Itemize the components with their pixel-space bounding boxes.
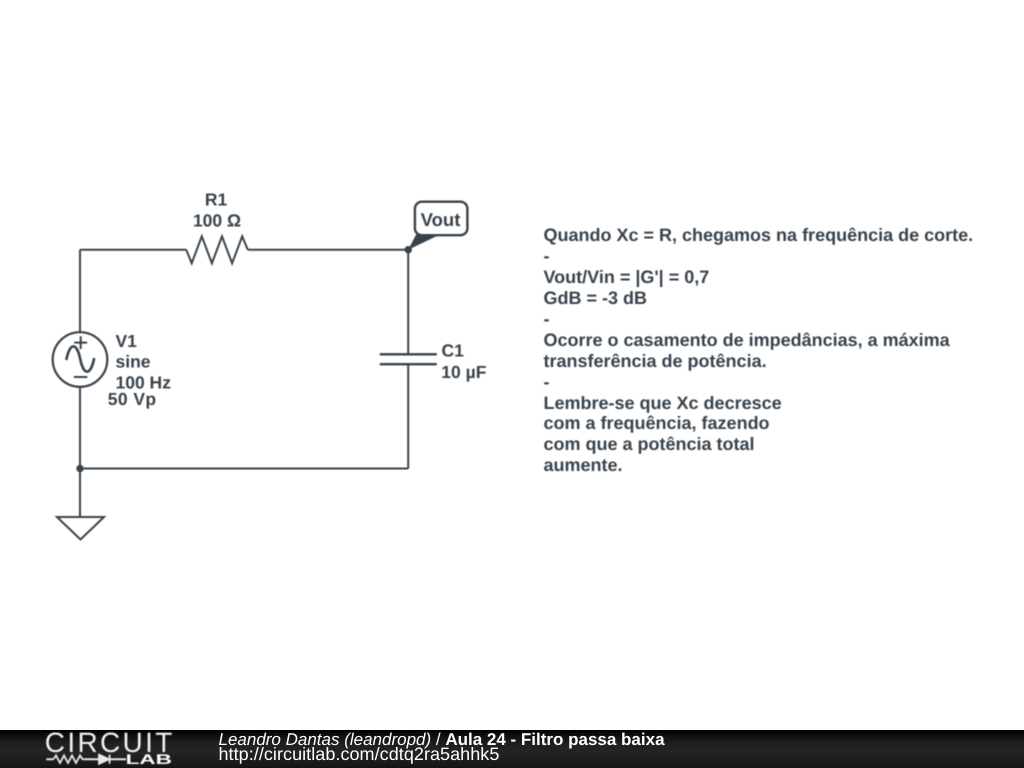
svg-text:sine: sine [116,351,151,371]
annotation text block [544,225,974,476]
Vout callout tail [408,234,438,250]
svg-text:100 Ω: 100 Ω [193,210,241,230]
wire top-left horizontal [80,249,186,251]
wire bottom horizontal [80,468,408,470]
V1 minus sign [74,376,88,378]
svg-text:LAB: LAB [126,751,172,767]
footer credit line [219,730,665,750]
footer url line [219,744,500,764]
V1 plus sign [74,336,87,349]
junction dot bottom-left [76,465,83,472]
node Vout junction dot [405,246,412,253]
svg-text:50 Vp: 50 Vp [108,389,157,409]
logo resistor [54,755,85,763]
wire from R1 to Vout node [248,249,408,251]
wire from top wire to V1 top [79,250,81,333]
wire from V1 bottom to bottom-left junction [79,386,81,469]
svg-text:V1: V1 [116,331,138,351]
wire from Vout node to C1 top [407,250,409,355]
svg-text:C1: C1 [442,341,465,361]
capacitor C1 [380,354,437,364]
logo wire [46,758,126,760]
footer bar [0,730,1024,768]
svg-text:R1: R1 [205,190,228,210]
ground [57,517,104,540]
CircuitLab logo [0,728,200,768]
logo diode [99,755,110,764]
wire from junction to ground [79,469,81,518]
svg-text:Vout: Vout [421,209,461,230]
Vout callout box [415,202,468,236]
wire from C1 bottom to bottom wire [407,364,409,468]
voltage source V1 [53,332,108,387]
svg-text:10 µF: 10 µF [441,362,486,382]
V1 sine symbol [66,346,94,371]
resistor R1 [186,236,248,263]
